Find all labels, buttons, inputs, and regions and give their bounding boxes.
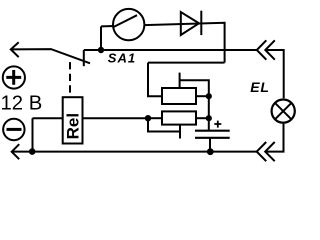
wire left bus vertical [32, 118, 34, 151]
node dot on bottom wire left [29, 148, 36, 155]
node dot right of R1 [206, 93, 212, 99]
wire from R2 node down to contact arm [148, 118, 180, 131]
arrow to battery minus [12, 144, 20, 159]
lamp EL circle [272, 100, 295, 123]
wire indicator branch sloped to right corner and down to rail [101, 23, 225, 63]
battery minus sign [7, 128, 22, 131]
wire R1 right lead [196, 95, 209, 97]
contact arm stub on R1 [179, 73, 181, 88]
capacitor C1 top plate [195, 130, 230, 132]
svg-text:EL: EL [250, 79, 270, 95]
svg-text:12 В: 12 В [1, 93, 43, 115]
arrow to battery plus [11, 42, 19, 57]
wire R2 right lead [196, 117, 209, 119]
resistor R1 [162, 88, 196, 104]
indicator device P1 circle [113, 9, 144, 40]
switch SA1 fixed contact post [83, 50, 85, 66]
relay mechanical link dashed [69, 62, 71, 97]
connector X1 chevron 2 [265, 40, 275, 59]
lamp EL cross [275, 103, 291, 119]
connector X2 chevron 2 [265, 142, 275, 161]
relay Rel coil box [63, 97, 83, 143]
wire rail y=62.6 [148, 62, 225, 64]
contact arm stub under R2 [179, 125, 181, 139]
wire right vertical to capacitor [208, 96, 210, 131]
wire from R1 arm to right vertical [180, 80, 209, 96]
wire rail down to resistor R1 left [148, 63, 162, 97]
node dot right of R2 [206, 115, 212, 121]
node junction at switch output [98, 47, 104, 53]
capacitor C1 bottom plate [195, 137, 230, 139]
battery minus terminal circle [3, 119, 24, 140]
svg-text:SA1: SA1 [108, 50, 136, 65]
indicator device P1 needle [114, 15, 138, 27]
node dot left of R2 [145, 115, 151, 121]
wire capacitor bottom stub [209, 138, 211, 152]
capacitor C1 polarity plus [214, 121, 221, 128]
svg-text:Rel: Rel [63, 113, 82, 139]
connector X2 chevron 1 [257, 142, 267, 161]
wire R2 left lead [148, 117, 162, 119]
switch SA1 lever [11, 49, 90, 63]
wire lamp bottom to connector X2 [265, 124, 283, 152]
wire main top bus y=50 [84, 49, 257, 51]
wire connector X1 to lamp top [265, 50, 283, 98]
wire from node up to indicator branch [100, 26, 102, 50]
connector X1 chevron 1 [257, 40, 267, 59]
battery plus sign [6, 70, 21, 85]
battery plus terminal circle [3, 66, 25, 88]
diode VD cathode bar [200, 11, 202, 35]
resistor R2 [162, 111, 196, 124]
wire relay to R2 [83, 117, 149, 119]
diode VD anode triangle [181, 12, 199, 35]
wire bus to relay left [33, 117, 63, 119]
wire bottom return bus y=151.6 [12, 151, 257, 153]
node dot capacitor to bottom wire [207, 148, 214, 155]
